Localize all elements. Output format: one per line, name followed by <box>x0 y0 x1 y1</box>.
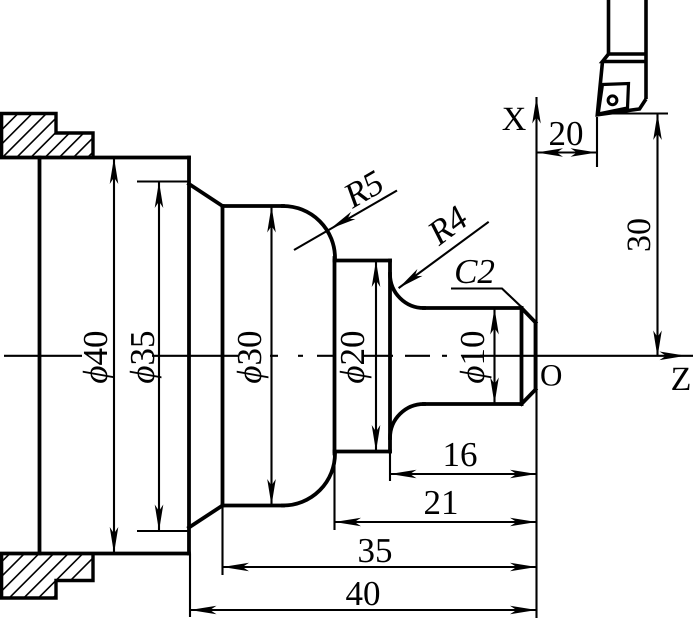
svg-text:C2: C2 <box>454 252 495 291</box>
dimension 35 <box>223 566 537 568</box>
phi30 bottom surface <box>223 504 284 508</box>
svg-text:ϕ30: ϕ30 <box>230 330 269 383</box>
dimension phi40 <box>113 158 115 554</box>
phi35 bottom extension <box>137 530 190 532</box>
svg-text:ϕ20: ϕ20 <box>333 330 372 383</box>
right end face <box>534 323 538 390</box>
phi30/phi20 shoulder face <box>333 258 337 454</box>
svg-text:Z: Z <box>671 361 692 398</box>
part outline (thick) <box>0 158 536 554</box>
phi10 bottom surface <box>424 402 522 406</box>
phi40 bottom surface <box>0 552 189 556</box>
phi20/phi10 shoulder face <box>388 261 392 452</box>
ext for 40 at x=190 <box>189 554 191 618</box>
chuck jaw top (hatched stepped block) <box>2 114 93 158</box>
svg-text:ϕ40: ϕ40 <box>76 330 115 383</box>
leader R5 <box>294 191 397 251</box>
phi35 top extension <box>137 180 190 182</box>
centerline / Z axis (dash-dot) <box>4 355 693 357</box>
ext for 21 at x=334.5 <box>333 454 335 531</box>
fillet R4 bottom arc <box>390 404 424 438</box>
taper top edge <box>189 184 223 206</box>
chamfer C2 top edge <box>522 308 536 323</box>
leader C2 with underline <box>451 289 522 308</box>
X axis (vertical thin line at x=536.5 from top arrow to image bottom) <box>535 97 537 618</box>
dimension phi20 <box>375 261 377 452</box>
svg-text:X: X <box>502 101 527 138</box>
taper bottom edge <box>189 506 223 528</box>
dimension phi35 <box>158 182 160 532</box>
dimension phi10 <box>493 308 495 404</box>
ext for 20 at tool tip x=597 <box>596 117 598 167</box>
insert screw circle <box>608 96 617 105</box>
svg-text:40: 40 <box>346 574 381 613</box>
ext for 16 at x=390 <box>389 452 391 482</box>
phi40/phi35 shoulder face <box>187 158 191 554</box>
dimension 16 <box>390 473 537 475</box>
dimension 30 <box>656 114 658 356</box>
phi40 top surface <box>0 156 189 160</box>
dimension 40 <box>190 609 537 611</box>
svg-text:ϕ35: ϕ35 <box>123 330 162 383</box>
dimension phi30 <box>270 206 272 506</box>
Z axis arrow <box>660 352 687 361</box>
svg-text:16: 16 <box>443 435 478 474</box>
extension lines (thin) <box>137 114 668 618</box>
cutting tool shank <box>597 0 646 115</box>
dimension 20 <box>537 151 598 153</box>
dimension 21 <box>335 521 537 523</box>
svg-text:35: 35 <box>358 531 393 570</box>
bar left end face <box>38 158 42 554</box>
phi10 top surface <box>424 306 522 310</box>
svg-text:30: 30 <box>621 218 658 252</box>
ext for 30 at y=113.5 <box>598 112 668 114</box>
svg-text:21: 21 <box>424 483 459 522</box>
chamfer edge circle line <box>520 308 524 404</box>
svg-text:ϕ10: ϕ10 <box>453 330 492 383</box>
fillet R5 bottom arc <box>283 454 335 506</box>
fillet R4 top arc <box>390 274 424 308</box>
fillet R5 top arc <box>283 206 335 258</box>
ext for 35 at x=222.5 <box>221 506 223 576</box>
tool head <box>603 54 647 62</box>
chuck jaw bottom (hatched stepped block) <box>2 554 93 599</box>
chamfer C2 bottom edge <box>522 390 536 405</box>
phi20 top surface <box>335 259 391 263</box>
tool insert <box>598 84 628 115</box>
X axis arrow <box>532 97 541 124</box>
phi20 bottom surface <box>335 450 391 454</box>
phi30 top surface <box>223 204 284 208</box>
svg-text:O: O <box>540 358 562 393</box>
leader R4 <box>399 222 489 288</box>
phi30 edge circle line <box>221 206 225 506</box>
svg-text:20: 20 <box>549 114 584 153</box>
